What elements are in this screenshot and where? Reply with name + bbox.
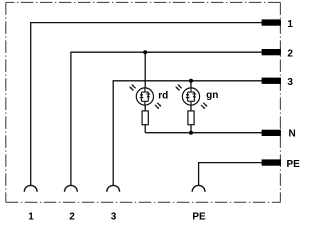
wire PE pin to terminal PE (199, 163, 262, 186)
terminal block 1 (262, 19, 281, 25)
svg-text:N: N (289, 129, 296, 140)
wire LED2 to resistor R2 (190, 105, 192, 111)
wire LED1 branch top (144, 52, 146, 88)
socket contact pin PE (192, 185, 205, 191)
svg-text:3: 3 (287, 77, 293, 88)
LED L2 emission arrows upper-left (175, 84, 181, 90)
wire LED1 to resistor R1 (144, 105, 146, 111)
LED L1 emission arrows upper-left (129, 84, 135, 90)
socket contact pin 3 (107, 185, 120, 191)
wire R2 to N rail (190, 125, 192, 133)
socket contact pin 2 (65, 185, 78, 191)
LED L1 emission arrows lower-right (155, 103, 161, 109)
svg-text:2: 2 (69, 212, 75, 222)
node junction N rail/R2 (189, 131, 193, 135)
LED L2 emission arrows lower-right (201, 103, 207, 109)
svg-text:3: 3 (111, 212, 117, 222)
wire pin2 to terminal 2 (71, 52, 262, 185)
wire R1 to N rail (144, 125, 146, 133)
LED L1 rd (circle, antiparallel diodes) (136, 88, 153, 105)
resistor R2 (188, 111, 194, 125)
terminal block 3 (262, 78, 281, 84)
wire N rail to terminal N (145, 132, 262, 134)
svg-text:PE: PE (287, 159, 301, 170)
resistor R1 (142, 111, 148, 125)
socket contact pin 1 (24, 185, 37, 191)
LED L2 gn (circle, antiparallel diodes) (182, 88, 199, 105)
wire pin1 to terminal 1 (31, 23, 262, 186)
node junction wire2/LED1 (143, 50, 147, 54)
svg-text:2: 2 (287, 48, 293, 59)
node junction wire3/LED2 (189, 79, 193, 83)
wire LED2 branch top (190, 81, 192, 88)
terminal block N (262, 130, 281, 136)
terminal block 2 (262, 49, 281, 55)
svg-text:PE: PE (192, 212, 206, 222)
svg-text:1: 1 (287, 19, 293, 30)
terminal block PE (262, 159, 281, 165)
svg-text:1: 1 (28, 212, 34, 222)
wire pin3 to terminal 3 (113, 81, 262, 186)
device boundary chain line (dash-dot frame) (6, 2, 281, 202)
svg-text:gn: gn (206, 90, 218, 101)
svg-text:rd: rd (158, 91, 168, 102)
